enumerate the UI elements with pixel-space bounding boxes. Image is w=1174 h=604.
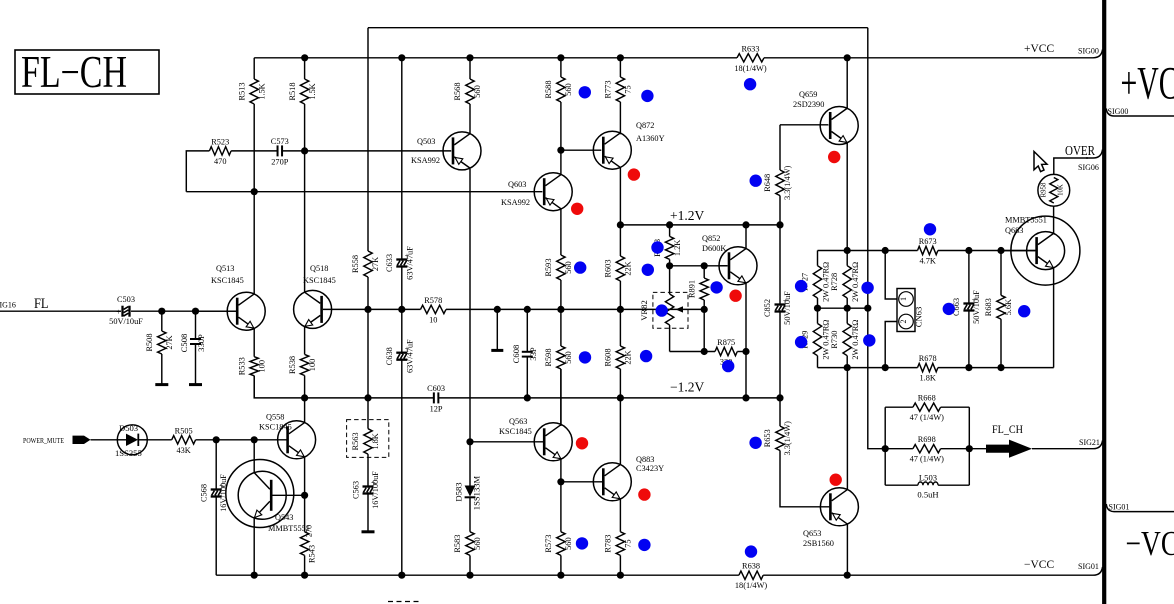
wire OVER hook (1086, 150, 1103, 159)
svg-text:560: 560 (473, 85, 482, 97)
resistor R508 (145, 311, 174, 384)
svg-text:SIG00: SIG00 (1078, 47, 1099, 56)
wire column R513 lower (253, 104, 255, 294)
svg-text:Q603: Q603 (508, 180, 526, 189)
wire Q883 emitter (619, 499, 621, 532)
svg-text:C633: C633 (385, 254, 394, 272)
svg-text:1SS355: 1SS355 (115, 448, 142, 458)
junction (466, 438, 473, 445)
svg-text:4.7K: 4.7K (920, 257, 936, 266)
junction (398, 54, 405, 61)
wire Q653 collector up (846, 368, 848, 490)
svg-text:2SD2390: 2SD2390 (793, 100, 824, 109)
junction (997, 364, 1004, 371)
wire C852 column b (779, 310, 781, 398)
junction (882, 364, 889, 371)
junction (966, 445, 973, 452)
svg-text:R558: R558 (351, 255, 360, 273)
marker blue dot (722, 360, 734, 372)
svg-text:R638: R638 (742, 562, 760, 571)
wire row -1.2V (254, 376, 434, 398)
svg-text:R608: R608 (604, 349, 613, 367)
junction (301, 54, 308, 61)
junction (742, 221, 749, 228)
marker blue dot (744, 78, 756, 90)
wire C568 column a (215, 440, 217, 491)
svg-text:100: 100 (257, 360, 266, 372)
wire Q543 collector (253, 440, 255, 473)
marker blue dot (943, 303, 955, 315)
marker blue dot (656, 304, 668, 316)
wire FL_CH to bus (1032, 441, 1103, 449)
svg-text:R518: R518 (288, 83, 297, 101)
marker blue dot (641, 90, 653, 102)
svg-text:R538: R538 (288, 356, 297, 374)
wire column Q503 collector (469, 169, 471, 442)
junction (301, 147, 308, 154)
capacitor C563 (352, 471, 381, 509)
svg-text:1SS133M: 1SS133M (472, 475, 482, 510)
transistor Q683 MMBT5551 (1001, 216, 1080, 286)
marker blue dot (863, 334, 875, 346)
transistor Q563 KSC1845 (499, 417, 572, 461)
svg-text:63V/47uF: 63V/47uF (405, 339, 414, 373)
wire C563 lead a (367, 462, 369, 488)
svg-text:R505: R505 (175, 426, 193, 435)
wire Q603 collector (560, 150, 562, 174)
wire -VCC rail (216, 574, 739, 576)
resistor R513 (237, 79, 266, 104)
wire Q558 emitter (304, 457, 306, 532)
svg-text:0.5uH: 0.5uH (917, 490, 938, 500)
wire column C633 c (401, 359, 403, 576)
svg-text:R573: R573 (544, 535, 553, 553)
junction (844, 364, 851, 371)
svg-text:75: 75 (624, 85, 633, 93)
svg-text:R698: R698 (918, 435, 936, 444)
marker red dot (638, 488, 650, 500)
svg-text:R523: R523 (211, 137, 229, 146)
junction (158, 308, 165, 315)
input tag POWER_MUTE (73, 436, 91, 444)
svg-text:18(1/4W): 18(1/4W) (734, 64, 766, 73)
svg-text:OVER: OVER (1065, 143, 1095, 158)
marker blue dot (642, 264, 654, 276)
junction (776, 394, 783, 401)
junction (398, 306, 405, 313)
svg-text:R563: R563 (351, 432, 360, 450)
svg-text:47 (1/4W): 47 (1/4W) (910, 413, 945, 422)
marker red dot (828, 151, 840, 163)
svg-text:R773: R773 (604, 81, 613, 99)
wire Q543 emitter (253, 518, 255, 575)
wire Q563 collector (560, 369, 562, 425)
svg-text:SIG01: SIG01 (1078, 562, 1099, 571)
svg-text:R533: R533 (237, 357, 246, 375)
transistor Q513 KSC1845 (196, 264, 266, 330)
svg-text:Q659: Q659 (799, 90, 817, 99)
wire output to arrow (969, 448, 986, 450)
svg-text:R583: R583 (453, 535, 462, 553)
junction (557, 147, 564, 154)
wire Q653 emitter down (846, 524, 848, 575)
svg-text:1.2K: 1.2K (673, 240, 682, 256)
wire C663 column b (968, 309, 970, 367)
svg-text:−1.2V: −1.2V (670, 380, 704, 395)
resistor R578 (421, 296, 447, 325)
capacitor C503 (109, 295, 143, 326)
marker blue dot (924, 223, 936, 235)
wire OVER wire (1054, 158, 1088, 175)
wire row151 R523 to C573 (231, 150, 278, 152)
marker blue dot (750, 175, 762, 187)
junction (844, 247, 851, 254)
svg-text:C508: C508 (179, 334, 189, 353)
svg-text:Q683: Q683 (1005, 226, 1023, 235)
wire Q659 collector (846, 58, 848, 109)
svg-text:Q503: Q503 (417, 137, 435, 146)
wire Q872 collector down (619, 167, 621, 225)
svg-text:SIG16: SIG16 (0, 301, 16, 310)
wire Q558 collector (304, 398, 306, 423)
marker blue dot (749, 437, 761, 449)
marker blue dot (651, 241, 663, 253)
svg-text:63V/47uF: 63V/47uF (405, 246, 414, 280)
capacitor C852 (763, 291, 792, 325)
junction (466, 54, 473, 61)
wire C568 column b (215, 495, 217, 575)
transistor Q518 KSC1845 (294, 264, 368, 328)
ground terminal (491, 349, 503, 352)
ground terminal (155, 383, 168, 386)
marker blue dot (861, 282, 873, 294)
svg-text:FL−CH: FL−CH (21, 47, 127, 97)
resistor R728 (830, 251, 860, 309)
wiper arrowhead VR82 (676, 306, 684, 312)
svg-text:R958: R958 (1041, 182, 1048, 197)
wire block left edge (884, 407, 886, 485)
svg-text:50V/10uF: 50V/10uF (109, 317, 143, 326)
svg-text:C603: C603 (427, 384, 445, 393)
resistor R568 (453, 58, 482, 134)
wire Q683 collector (1053, 206, 1055, 233)
wire +VCC rail to bus hook (254, 57, 737, 59)
resistor R729 (801, 320, 831, 360)
wire R505 to Q558 (216, 439, 287, 441)
svg-text:Q558: Q558 (266, 413, 284, 422)
marker blue dot (795, 336, 807, 348)
capacitor C633 (385, 246, 415, 280)
junction (557, 572, 564, 579)
svg-text:3.3(1/4W): 3.3(1/4W) (783, 165, 792, 200)
junction (701, 306, 708, 313)
marker blue dot (1018, 305, 1030, 317)
junction (364, 306, 371, 313)
wire stub (496, 309, 498, 350)
svg-text:12P: 12P (430, 404, 443, 413)
marker blue dot (574, 261, 586, 273)
junction (617, 54, 624, 61)
wire FL after C503 (131, 310, 238, 312)
wire row -1.2V right (438, 397, 780, 399)
junction (251, 188, 258, 195)
svg-text:10: 10 (429, 315, 437, 324)
junction (617, 306, 624, 313)
wire bootstrap down column (867, 28, 869, 309)
resistor R668 (885, 394, 969, 423)
svg-text:A1360Y: A1360Y (636, 134, 665, 143)
svg-text:VR82: VR82 (639, 300, 649, 321)
wire CN63 pin2 wire (885, 322, 897, 368)
svg-text:SIG01: SIG01 (1109, 503, 1130, 512)
wire Q563 emitter (560, 459, 562, 532)
wire -VCC rail right (763, 567, 1102, 575)
svg-text:R568: R568 (453, 83, 462, 101)
marker red dot (628, 168, 640, 180)
svg-text:47 (1/4W): 47 (1/4W) (910, 455, 945, 464)
junction (192, 308, 199, 315)
svg-text:1.8K: 1.8K (920, 374, 936, 383)
junction (814, 305, 821, 312)
resistor R843 (653, 225, 682, 266)
svg-text:Q852: Q852 (702, 234, 720, 243)
svg-text:470: 470 (214, 157, 226, 166)
wire Q852 base row (670, 265, 728, 267)
svg-text:C3423Y: C3423Y (636, 464, 664, 473)
svg-text:C608: C608 (511, 345, 521, 364)
svg-text:560: 560 (564, 83, 573, 95)
marker red dot (830, 474, 842, 486)
wire column 368 row309 to row398 (367, 309, 369, 398)
junction (557, 306, 564, 313)
resistor R673 (918, 237, 938, 266)
transistor Q852 D600K (702, 234, 757, 285)
junction (251, 572, 258, 579)
resistor R633 (734, 44, 766, 73)
wire ladder left col2 (817, 298, 819, 324)
junction (742, 394, 749, 401)
wire row151 C573 to Q503 (282, 150, 451, 152)
resistor R875 (715, 338, 737, 367)
wire output column (868, 308, 885, 449)
junction (617, 394, 624, 401)
svg-text:R728: R728 (830, 273, 839, 291)
junction (557, 478, 564, 485)
wire column R518 lower (304, 104, 306, 292)
svg-text:2W 0.47RΩ: 2W 0.47RΩ (851, 320, 860, 360)
svg-text:2SB1560: 2SB1560 (803, 539, 834, 548)
transistor Q603 KSA992 (501, 173, 572, 211)
svg-text:KSC1845: KSC1845 (211, 276, 244, 285)
svg-text:R513: R513 (237, 83, 246, 101)
resistor R563 (351, 398, 380, 462)
svg-text:R543: R543 (308, 545, 317, 563)
junction (965, 364, 972, 371)
junction (301, 492, 308, 499)
thermistor R958 (1038, 174, 1070, 206)
svg-text:27K: 27K (165, 335, 174, 349)
resistor R598 (544, 309, 573, 426)
svg-text:10K: 10K (1058, 184, 1065, 196)
svg-text:−VCC: −VCC (1126, 524, 1174, 563)
resistor R783 (604, 532, 633, 575)
svg-text:C503: C503 (117, 295, 135, 304)
svg-text:CN63: CN63 (914, 307, 924, 328)
junction (251, 436, 258, 443)
resistor R558 (351, 251, 380, 277)
svg-text:SIG06: SIG06 (1078, 163, 1099, 172)
resistor R773 (604, 58, 633, 135)
marker blue dot (576, 537, 588, 549)
junction (666, 221, 673, 228)
svg-text:1.5K: 1.5K (308, 83, 317, 99)
svg-text:27K: 27K (371, 257, 380, 271)
junction (301, 572, 308, 579)
wire column C633 a (401, 58, 403, 261)
svg-text:330P: 330P (196, 334, 206, 352)
wire bootstrap rail top (368, 27, 868, 29)
svg-text:Q883: Q883 (636, 455, 654, 464)
wire ladder bottom row a (818, 367, 918, 369)
junction (494, 306, 501, 313)
wire power mute wire (91, 439, 118, 441)
wire ladder bottom row b (938, 367, 1054, 369)
svg-text:2W 0.47RΩ: 2W 0.47RΩ (851, 262, 860, 302)
capacitor C663 (952, 290, 981, 324)
wire row192 base line (186, 191, 542, 193)
svg-text:−VCC: −VCC (1024, 559, 1054, 571)
junction (557, 54, 564, 61)
marker blue dot (795, 280, 807, 292)
svg-text:5.6K: 5.6K (1004, 299, 1013, 315)
wire Q872 base (561, 149, 601, 151)
resistor None (300, 532, 308, 575)
svg-text:Q513: Q513 (216, 264, 234, 273)
wire ladder top row a (818, 250, 918, 252)
resistor R583 (453, 532, 482, 575)
svg-text:Q653: Q653 (803, 529, 821, 538)
potentiometer VR82 (639, 266, 674, 352)
wire pot bottom to R875 (670, 351, 715, 353)
wire column D583 (469, 442, 471, 486)
svg-text:560: 560 (473, 537, 482, 549)
junction (524, 394, 531, 401)
svg-text:R668: R668 (918, 394, 936, 403)
transistor Q558 KSC1845 (259, 413, 316, 459)
svg-text:560: 560 (564, 351, 573, 363)
svg-text:KSC1845: KSC1845 (499, 427, 532, 436)
resistor R593 (544, 242, 573, 309)
wire Q883 collector (619, 398, 621, 465)
wire column R558 top (367, 28, 369, 251)
svg-text:R891: R891 (687, 280, 696, 298)
wire column R513 (253, 58, 255, 79)
connector CN63 (897, 289, 924, 332)
wire C563 lead b (367, 492, 369, 531)
ground terminal (189, 383, 202, 386)
wire SIG01 right (1106, 504, 1174, 512)
resistor R683 (984, 251, 1013, 368)
svg-text:22K: 22K (624, 261, 633, 275)
resistor R523 (209, 137, 231, 166)
wire column C633 b (401, 265, 403, 353)
svg-text:POWER_MUTE: POWER_MUTE (23, 436, 64, 445)
inductor L503 (885, 473, 969, 500)
svg-text:D503: D503 (119, 423, 138, 433)
svg-text:FL_CH: FL_CH (992, 422, 1023, 436)
svg-text:R598: R598 (544, 349, 553, 367)
junction (965, 247, 972, 254)
junction (742, 348, 749, 355)
svg-text:560: 560 (564, 261, 573, 273)
svg-text:75: 75 (624, 539, 633, 547)
output arrow FL_CH (986, 440, 1032, 458)
svg-text:R653: R653 (763, 429, 772, 447)
svg-text:22K: 22K (624, 350, 633, 364)
junction (666, 262, 673, 269)
wire mid row a (368, 308, 421, 310)
svg-text:C852: C852 (763, 299, 772, 317)
svg-text:SIG21: SIG21 (1079, 438, 1100, 447)
wire ladder left col3 (817, 356, 819, 368)
svg-text:R683: R683 (984, 298, 993, 316)
marker red dot (571, 203, 583, 215)
junction (617, 572, 624, 579)
capacitor C603 (427, 384, 445, 414)
capacitor C638 (385, 339, 415, 373)
svg-text:R783: R783 (604, 535, 613, 553)
diode D583 (454, 475, 482, 531)
resistor R538 (288, 327, 317, 398)
wire SIG00 right (1106, 109, 1174, 117)
marker blue dot (640, 350, 652, 362)
wire C663 column a (968, 251, 970, 305)
resistor R648 (763, 125, 792, 225)
svg-text:R508: R508 (145, 334, 154, 352)
svg-text:KSA992: KSA992 (501, 198, 530, 207)
svg-text:+VCC: +VCC (1024, 43, 1054, 55)
svg-text:KSC1845: KSC1845 (259, 423, 292, 432)
wire R891 column to pot bottom (703, 309, 705, 351)
capacitor C573 (271, 137, 289, 167)
svg-text:R603: R603 (604, 260, 613, 278)
svg-text:L503: L503 (919, 473, 937, 483)
svg-text:FL: FL (34, 296, 49, 312)
wire Q659 emitter (846, 143, 848, 251)
svg-text:3.3(1/4W): 3.3(1/4W) (783, 421, 792, 456)
svg-text:43K: 43K (177, 446, 191, 455)
wire R875 to emitter column (737, 351, 746, 353)
svg-text:C573: C573 (271, 137, 289, 146)
wire Q603 emitter (560, 209, 562, 242)
resistor R518 (288, 58, 317, 104)
junction (701, 348, 708, 355)
svg-text:2: 2 (899, 320, 908, 324)
svg-text:1.8K: 1.8K (371, 433, 380, 449)
marker blue dot (579, 86, 591, 98)
marker red dot (576, 437, 588, 449)
svg-text:Q543: Q543 (275, 513, 293, 522)
wire row151 left elbow (186, 151, 209, 192)
wire C852 column a (779, 225, 781, 306)
resistor R891 (687, 266, 708, 310)
wire Q852 emitter (745, 283, 747, 398)
svg-text:MMBT5551: MMBT5551 (268, 524, 310, 533)
junction (882, 445, 889, 452)
wire Q659 base row (780, 124, 828, 126)
transistor Q883 C3423Y (561, 455, 664, 501)
svg-text:Q518: Q518 (310, 264, 328, 273)
